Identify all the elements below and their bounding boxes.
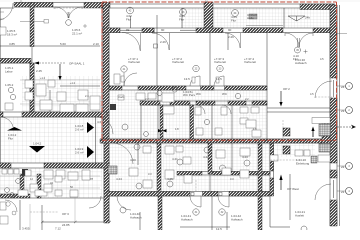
vertical hatches xyxy=(30,3,34,47)
svg-text:Vorbereit: Vorbereit xyxy=(214,60,226,64)
svg-text:4.25: 4.25 xyxy=(167,177,173,181)
svg-text:2.6 m²: 2.6 m² xyxy=(75,128,84,132)
bottom rooms north wall xyxy=(105,191,270,193)
svg-text:4.24: 4.24 xyxy=(116,177,122,181)
svg-text:5.60: 5.60 xyxy=(60,42,66,46)
grid texture: rooms below red band xyxy=(109,143,270,191)
svg-text:2.2: 2.2 xyxy=(145,97,149,101)
svg-text:4.23: 4.23 xyxy=(242,155,248,159)
right wall hatch segments xyxy=(330,5,337,78)
grid texture: right strip below band xyxy=(270,143,315,157)
svg-text:1.05.2: 1.05.2 xyxy=(5,83,14,87)
left corridor north wall xyxy=(0,111,107,113)
big top column xyxy=(204,2,213,30)
svg-text:24: 24 xyxy=(341,85,345,89)
svg-text:OP 2: OP 2 xyxy=(283,87,290,91)
band A: south wall of top room row xyxy=(102,27,330,29)
svg-text:WC: WC xyxy=(196,92,202,96)
svg-text:21: 21 xyxy=(341,190,345,194)
right wall faces xyxy=(329,5,331,226)
svg-text:Labor: Labor xyxy=(5,70,13,74)
left corridor south wall xyxy=(0,162,110,164)
band C hatch xyxy=(140,101,160,105)
right big room south wall xyxy=(267,107,332,109)
svg-text:90: 90 xyxy=(161,28,165,32)
svg-text:90: 90 xyxy=(228,28,232,32)
grid texture: mid rooms center xyxy=(109,90,267,139)
svg-text:Einleitung: Einleitung xyxy=(296,162,310,166)
OP label leader arrow xyxy=(36,62,66,64)
top wall hatch left xyxy=(14,3,53,8)
svg-text:2.4: 2.4 xyxy=(85,94,89,98)
svg-text:4.20: 4.20 xyxy=(130,158,136,162)
svg-text:3.85: 3.85 xyxy=(9,42,15,46)
svg-text:12.5: 12.5 xyxy=(216,227,222,230)
svg-text:Aufwach: Aufwach xyxy=(295,61,307,65)
svg-text:24.85: 24.85 xyxy=(62,223,70,227)
doors from band B up xyxy=(190,76,200,86)
up arrow bottom right room xyxy=(279,175,282,181)
left upper room divider xyxy=(0,45,100,47)
red-band corridor wall xyxy=(100,138,322,140)
svg-text:4.22: 4.22 xyxy=(203,155,209,159)
grid bubbles right margin xyxy=(346,83,353,195)
svg-text:4.5: 4.5 xyxy=(320,57,324,61)
band C: toilet row wall xyxy=(140,100,267,102)
svg-text:90: 90 xyxy=(126,28,130,32)
svg-text:2.6 m²: 2.6 m² xyxy=(75,151,84,155)
svg-text:Aufwach: Aufwach xyxy=(231,218,243,222)
svg-text:4.21: 4.21 xyxy=(172,157,178,161)
red band wall hatch xyxy=(100,139,322,143)
svg-text:WC Pers: WC Pers xyxy=(183,93,196,97)
fixtures: right rooms xyxy=(270,118,330,163)
svg-text:Flur: Flur xyxy=(8,137,13,141)
svg-text:4.6: 4.6 xyxy=(97,120,102,124)
svg-text:WC: WC xyxy=(222,92,228,96)
down arrow right OP room xyxy=(279,102,282,107)
svg-text:Vorbereit: Vorbereit xyxy=(172,60,184,64)
svg-text:Vorbereit: Vorbereit xyxy=(128,60,140,64)
opposing door-width arrows xyxy=(158,129,162,132)
sink triangle symbol top right xyxy=(288,16,305,21)
svg-text:Vorbereit: Vorbereit xyxy=(244,60,256,64)
top-right double door xyxy=(285,33,299,47)
top wall hatch right xyxy=(300,4,334,10)
fixtures: top-left room xyxy=(0,20,49,36)
bottom dimension lines xyxy=(42,221,110,223)
svg-text:Aufwach: Aufwach xyxy=(181,218,193,222)
svg-text:Ausleit: Ausleit xyxy=(295,214,304,218)
window sill lines in band A xyxy=(120,29,142,31)
top exterior wall xyxy=(0,7,14,9)
svg-text:22.1 m²: 22.1 m² xyxy=(72,32,82,36)
svg-text:Aufwach: Aufwach xyxy=(130,216,142,220)
left red-zone wall column xyxy=(103,5,109,139)
dashed lines xyxy=(30,8,332,212)
svg-text:2.26: 2.26 xyxy=(228,35,234,39)
bottom room doors xyxy=(190,196,201,207)
top wall hatch mid xyxy=(84,3,110,9)
svg-text:4.5: 4.5 xyxy=(310,92,314,96)
svg-text:Flur: Flur xyxy=(179,18,184,22)
svg-text:3.455: 3.455 xyxy=(22,227,30,231)
verticals xyxy=(31,3,33,64)
bottom rooms wall hatch xyxy=(107,192,190,197)
band A hatch segments xyxy=(103,28,120,33)
up arrow in right shaft zone xyxy=(311,127,314,132)
svg-text:OP-SAAL 1: OP-SAAL 1 xyxy=(69,62,85,66)
svg-text:13.5: 13.5 xyxy=(184,77,190,81)
inner room block south wall xyxy=(177,172,202,176)
down arrow left OP room xyxy=(58,76,61,81)
marker circles xyxy=(5,7,307,232)
left lab bottom wall xyxy=(0,194,30,198)
svg-text:2.45: 2.45 xyxy=(36,69,42,73)
grid texture: main left corridor xyxy=(0,117,102,163)
band B hatch xyxy=(109,86,122,90)
svg-text:2.10: 2.10 xyxy=(93,42,99,46)
svg-text:OP West: OP West xyxy=(287,187,299,191)
svg-text:OP 3: OP 3 xyxy=(62,212,69,216)
red boundary dashed xyxy=(102,2,337,141)
svg-text:1.04.2: 1.04.2 xyxy=(33,142,42,146)
dark shaft blocks xyxy=(22,169,28,176)
right room door xyxy=(315,81,332,98)
svg-text:1.8: 1.8 xyxy=(253,127,257,131)
svg-text:Flur: Flur xyxy=(126,18,131,22)
left OP wall band xyxy=(0,59,31,64)
left lab divider xyxy=(0,197,110,199)
svg-text:18.3 m²: 18.3 m² xyxy=(7,33,17,37)
fixtures: left lab room xyxy=(5,80,100,112)
svg-text:Vorb.: Vorb. xyxy=(118,95,125,99)
svg-text:Halle: Halle xyxy=(247,16,254,20)
corridor direction triangles xyxy=(7,127,22,131)
svg-text:2.2: 2.2 xyxy=(245,97,249,101)
grid texture: left lower lab strip xyxy=(0,168,102,198)
grid texture: top-right tiled room xyxy=(181,8,330,28)
svg-text:+1.2: +1.2 xyxy=(70,81,76,85)
fixtures: bottom-left lab xyxy=(0,169,90,224)
svg-text:22: 22 xyxy=(341,165,345,169)
building left edge wall xyxy=(0,8,2,168)
svg-text:1.04.50: 1.04.50 xyxy=(200,101,210,105)
svg-text:24b: 24b xyxy=(305,16,310,20)
grid texture: left lab room xyxy=(22,76,102,112)
fixtures: rooms below band xyxy=(129,146,250,188)
leader arrow at red right edge xyxy=(337,126,351,128)
fixtures: mid rooms xyxy=(114,74,261,137)
svg-text:3.3: 3.3 xyxy=(230,177,234,181)
svg-text:13.5: 13.5 xyxy=(216,77,222,81)
svg-text:2.26: 2.26 xyxy=(160,40,166,44)
top-left double door xyxy=(55,7,69,18)
svg-text:1.8: 1.8 xyxy=(175,127,179,131)
band B: mid rooms north wall xyxy=(109,85,267,87)
svg-text:+1.2: +1.2 xyxy=(40,76,46,80)
corridor door xyxy=(96,117,113,134)
doors from band A down xyxy=(122,33,140,51)
svg-text:7.12: 7.12 xyxy=(55,227,61,231)
corridor wall hatch xyxy=(0,112,3,117)
svg-text:23: 23 xyxy=(341,109,345,113)
svg-text:3.3: 3.3 xyxy=(148,172,152,176)
svg-text:Flur: Flur xyxy=(231,19,236,23)
